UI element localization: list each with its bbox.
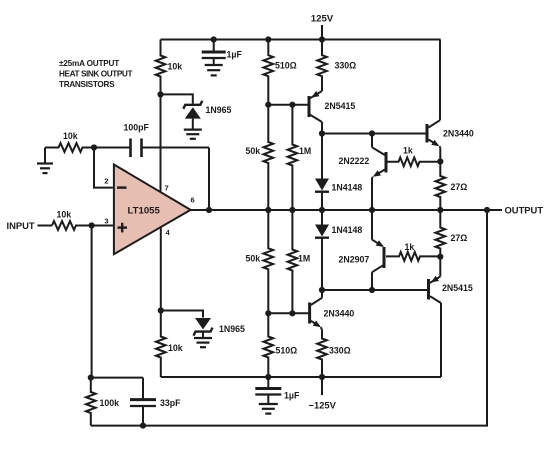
capacitor 1uF (top bypass)	[202, 40, 226, 65]
resistor 10k (inverting input to gnd)	[45, 143, 94, 152]
wire +input node to pin 3	[92, 225, 113, 227]
label 27ohm (bottom)	[451, 233, 468, 243]
svg-text:330Ω: 330Ω	[329, 346, 351, 356]
transistor Q3 2N2222 (upper current limit, NPN)	[372, 134, 386, 211]
resistor 50k (bottom)	[264, 210, 274, 313]
svg-text:OUTPUT: OUTPUT	[505, 205, 544, 216]
label 510ohm (bottom)	[276, 346, 298, 356]
svg-text:125V: 125V	[311, 14, 334, 25]
diode 1N4148 (upper)	[315, 134, 329, 211]
zener diode 1N965 (V- clamp)	[194, 318, 213, 338]
label 1k (top)	[403, 146, 413, 156]
resistor 510ohm (bottom)	[264, 313, 274, 377]
svg-text:330Ω: 330Ω	[335, 61, 357, 71]
wire lower base node to 2N3440	[268, 312, 308, 314]
label 1N4148 (upper)	[332, 183, 363, 193]
wire upper base node to 2N5415	[268, 104, 307, 106]
svg-text:HEAT SINK OUTPUT: HEAT SINK OUTPUT	[59, 70, 132, 79]
label OUTPUT	[505, 205, 544, 216]
ground (V+ zener)	[184, 130, 202, 139]
transistor Q1 2N5415 (top level shift, PNP)	[309, 91, 322, 134]
resistor 27ohm (top)	[436, 162, 446, 211]
wire output node line	[191, 209, 502, 211]
junction dot upper base node	[265, 102, 271, 108]
label 1N965 (top)	[206, 105, 232, 115]
capacitor 1uF (bottom bypass)	[255, 377, 281, 404]
wire V+ node to op-amp pin 7	[160, 94, 162, 192]
svg-text:INPUT: INPUT	[7, 220, 35, 231]
label -125V	[309, 400, 337, 411]
junction dot limiter emitters on output	[369, 207, 375, 213]
label 1M (top)	[299, 146, 311, 156]
ground (inverting 10k)	[37, 148, 53, 174]
svg-text:1µF: 1µF	[284, 391, 300, 401]
label 2N3440 (top)	[443, 129, 474, 139]
svg-text:10k: 10k	[63, 131, 78, 141]
transistor Q5 2N3440 (top output, NPN)	[427, 40, 440, 162]
label 10k (V+ supply)	[168, 62, 183, 72]
pin label 6	[191, 196, 195, 205]
wire top +125V rail	[161, 39, 441, 41]
junction dot 1uF top on +rail	[211, 36, 217, 42]
svg-text:1N965: 1N965	[206, 105, 232, 115]
junction dot inverting node	[91, 144, 97, 150]
junction dot diode string on output	[319, 207, 325, 213]
junction dot 100pF feedback on output	[206, 207, 212, 213]
svg-text:1N965: 1N965	[219, 324, 245, 334]
svg-text:1N4148: 1N4148	[332, 225, 363, 235]
svg-text:1k: 1k	[405, 242, 415, 252]
transistor Q6 2N5415 (bottom output, PNP)	[429, 257, 442, 377]
label 330ohm (bottom)	[329, 346, 351, 356]
resistor 10k (input)	[52, 221, 92, 230]
svg-text:510Ω: 510Ω	[276, 346, 298, 356]
svg-text:TRANSISTORS: TRANSISTORS	[59, 80, 115, 89]
label 2N5415 (top)	[325, 101, 356, 111]
svg-text:1µF: 1µF	[227, 50, 243, 60]
svg-text:10k: 10k	[168, 62, 183, 72]
junction dot top emitter/1k	[437, 158, 443, 164]
svg-text:7: 7	[165, 184, 169, 193]
capacitor 33pF	[130, 378, 156, 426]
resistor 10k (V- supply)	[156, 311, 166, 378]
svg-text:33pF: 33pF	[160, 398, 181, 408]
svg-text:10k: 10k	[168, 343, 183, 353]
svg-text:2N3440: 2N3440	[324, 309, 355, 319]
svg-text:50k: 50k	[246, 146, 261, 156]
op-amp U1 LT1055	[114, 165, 191, 255]
junction dot lower drive at 372	[369, 287, 375, 293]
svg-text:2N3440: 2N3440	[443, 129, 474, 139]
label INPUT	[7, 220, 35, 231]
junction dot V+ zener node	[157, 91, 163, 97]
resistor 1k (bottom)	[386, 252, 440, 261]
junction dot 125V/330ohm on +rail	[319, 36, 325, 42]
pin label 7	[165, 184, 169, 193]
wire V- node to zener (bottom)	[161, 311, 203, 318]
svg-text:2N2222: 2N2222	[339, 156, 370, 166]
junction dot +input node	[89, 222, 95, 228]
resistor 1M (bottom)	[288, 210, 298, 313]
svg-text:1k: 1k	[403, 146, 413, 156]
junction dot -125V stub on -rail	[319, 374, 325, 380]
resistor 330ohm (top)	[317, 40, 327, 92]
svg-text:10k: 10k	[57, 210, 72, 220]
op-amp minus sign (pin 2)	[117, 186, 127, 188]
svg-text:50k: 50k	[246, 254, 261, 264]
svg-text:1M: 1M	[298, 254, 310, 264]
svg-text:2N5415: 2N5415	[442, 283, 473, 293]
svg-text:2N5415: 2N5415	[325, 101, 356, 111]
label 50k (bottom)	[246, 254, 261, 264]
label 10k (V- supply)	[168, 343, 183, 353]
junction dot 27ohm rail on output	[437, 207, 443, 213]
junction dot upper drive at 372	[369, 130, 375, 136]
svg-text:1N4148: 1N4148	[332, 183, 363, 193]
wire INPUT lead	[38, 225, 53, 227]
label 10k (inverting)	[63, 131, 78, 141]
label 510ohm (top)	[275, 61, 297, 71]
wire 100pF to output node	[208, 148, 210, 211]
svg-text:±25mA OUTPUT: ±25mA OUTPUT	[59, 59, 119, 68]
svg-text:27Ω: 27Ω	[451, 182, 468, 192]
pin label 4	[166, 228, 171, 237]
junction dot feedback tap on output	[484, 207, 490, 213]
svg-text:27Ω: 27Ω	[451, 233, 468, 243]
resistor 330ohm (bottom)	[317, 331, 327, 377]
junction dot V- zener node	[158, 307, 164, 313]
note line 1	[59, 59, 119, 68]
label 1uF (top)	[227, 50, 243, 60]
op-amp plus sign (pin 3)	[118, 223, 128, 233]
junction dot lower drive at 322	[319, 287, 325, 293]
wire V+ node to zener	[161, 94, 193, 103]
wire lower drive line	[322, 289, 428, 291]
svg-text:LT1055: LT1055	[128, 206, 161, 217]
junction dot 1M rail on output	[289, 207, 295, 213]
junction dot feedback divider node	[88, 375, 94, 381]
svg-text:100k: 100k	[100, 398, 120, 408]
label 1k (bottom)	[405, 242, 415, 252]
diode 1N4148 (lower)	[315, 210, 329, 290]
junction dot 1uF bottom on -rail	[265, 374, 271, 380]
transistor Q2 2N3440 (bottom level shift, NPN)	[310, 290, 322, 332]
note line 3	[59, 80, 115, 89]
resistor 1M (top)	[288, 105, 298, 210]
wire bottom -125V rail	[161, 376, 441, 378]
label 1M (bottom)	[298, 254, 310, 264]
label 27ohm (top)	[451, 182, 468, 192]
junction dot 1M bottom	[289, 310, 295, 316]
resistor 50k (top)	[264, 105, 274, 210]
svg-text:1M: 1M	[299, 146, 311, 156]
resistor 510ohm (top)	[264, 40, 274, 105]
svg-text:100pF: 100pF	[124, 123, 150, 133]
transistor Q4 2N2907 (lower current limit, PNP)	[372, 210, 384, 290]
pin label 2	[104, 177, 108, 186]
label 330ohm (top)	[335, 61, 357, 71]
resistor 27ohm (bottom)	[436, 210, 446, 257]
svg-text:6: 6	[191, 196, 195, 205]
resistor 1k (top)	[388, 157, 439, 166]
label 100pF	[124, 123, 150, 133]
wire upper drive line	[322, 133, 426, 135]
wire feedback right side	[91, 210, 487, 426]
capacitor 100pF	[94, 139, 209, 158]
note line 2	[59, 70, 132, 79]
junction dot 33pF on bottom feedback wire	[140, 423, 146, 429]
label 2N2222	[339, 156, 370, 166]
zener diode 1N965 (V+ clamp)	[183, 101, 202, 129]
junction dot 50k rail on output	[265, 207, 271, 213]
svg-text:3: 3	[104, 217, 108, 226]
node 125V supply stub	[321, 25, 323, 40]
label 125V	[311, 14, 334, 25]
node -125V supply stub	[321, 377, 323, 395]
resistor 10k (V+ supply)	[156, 40, 166, 95]
svg-text:−125V: −125V	[309, 400, 337, 411]
svg-text:510Ω: 510Ω	[275, 61, 297, 71]
ground (V- zener)	[194, 338, 212, 347]
ground (1uF top)	[205, 65, 223, 75]
junction dot lower base node	[265, 310, 271, 316]
svg-text:2N2907: 2N2907	[339, 255, 370, 265]
label 33pF	[160, 398, 181, 408]
label 1N4148 (lower)	[332, 225, 363, 235]
svg-text:2: 2	[104, 177, 108, 186]
wire +input node to feedback divider	[91, 226, 93, 378]
junction dot 510ohm top on +rail	[265, 36, 271, 42]
label 10k (input)	[57, 210, 72, 220]
label 2N5415 (bottom)	[442, 283, 473, 293]
wire inverting node to pin 2	[94, 148, 113, 188]
pin label 3	[104, 217, 108, 226]
ground (1uF bottom)	[259, 404, 278, 414]
resistor 100k (feedback)	[86, 378, 96, 426]
junction dot upper drive at 322	[319, 130, 325, 136]
junction dot bottom emitter/1k	[437, 254, 443, 260]
label 1uF (bottom)	[284, 391, 300, 401]
wire op-amp pin 4 to V- node	[160, 228, 162, 311]
label 2N3440 (bottom)	[324, 309, 355, 319]
wire divider node stub	[91, 377, 143, 379]
label 1N965 (bottom)	[219, 324, 245, 334]
label LT1055	[128, 206, 161, 217]
label 2N2907	[339, 255, 370, 265]
junction dot 1M top	[289, 102, 295, 108]
label 50k (top)	[246, 146, 261, 156]
label 100k	[100, 398, 120, 408]
